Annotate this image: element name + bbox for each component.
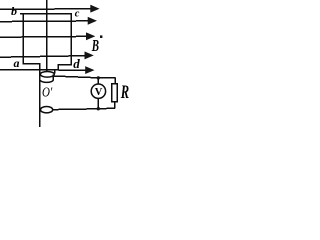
svg-text:d: d [73,56,80,71]
coil side ab (left) [22,13,24,64]
arrowhead B2 [88,18,96,24]
slip ring 3 [41,107,53,113]
arrowhead B1 [91,6,99,12]
coil lead stub [57,65,59,71]
slip ring 1 [40,72,54,78]
stray ink speck [100,35,102,38]
field line B3 [0,35,87,38]
axle OO' [46,0,48,71]
junction dot top [97,76,100,79]
voltmeter stub top [97,78,99,84]
field line B5 [0,69,86,72]
coil side bc (top) [20,13,72,15]
junction dot bottom [97,107,100,110]
svg-text:b: b [11,4,17,18]
arrowhead B4 [85,52,93,58]
bottom wire [53,108,115,109]
arrowhead B5 [86,67,94,73]
field line B2 [0,20,89,23]
arrowhead B3 [87,33,95,39]
svg-text:a: a [14,56,20,70]
left brush wire [39,63,41,127]
stub from R bottom [114,102,116,109]
svg-text:c: c [75,8,80,19]
svg-text:O′: O′ [42,84,52,100]
stub to ring 1 [54,70,56,73]
wire to voltmeter branch (top) [53,76,116,78]
stub into R top [114,77,116,83]
voltmeter stub bottom [97,98,99,109]
slip ring 2 [40,80,53,82]
slip ring 1 right wall [52,75,54,81]
svg-text:V: V [95,87,103,98]
resistor R box [112,84,118,102]
coil side cd (right) [70,13,72,65]
svg-text:R: R [120,83,129,103]
field line B1 [0,8,92,11]
svg-text:B: B [91,37,99,56]
field line B4 [0,56,86,58]
voltmeter U1 circle [91,84,105,98]
coil side ad right segment [58,64,72,66]
coil side ad left segment [23,63,40,65]
